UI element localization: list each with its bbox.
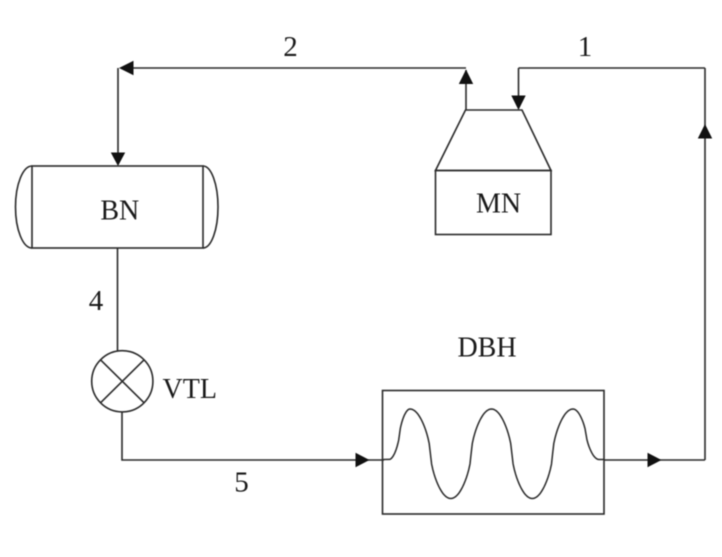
label BN: [100, 196, 139, 227]
wire stream 2: top horizontal line from MN riser to BN drop: [121, 67, 466, 69]
wire stream 1: top horizontal line from right riser to MN inlet drop: [519, 67, 706, 69]
wire: vertical drop from line 2 into BN tank: [117, 68, 119, 164]
svg-text:4: 4: [89, 285, 104, 317]
arrowhead left on stream 2: [119, 61, 134, 75]
wire: right-side riser from DBH outlet up to line 1: [704, 68, 706, 460]
arrowhead down into BN: [111, 153, 125, 167]
wire: vertical drop from line 1 into MN compressor: [518, 68, 520, 108]
arrowhead right on stream 5 at DBH inlet: [356, 453, 370, 467]
wire: riser from MN outlet up to line 2: [465, 70, 467, 110]
arrowhead right on DBH outlet line: [648, 453, 662, 467]
svg-text:VTL: VTL: [163, 374, 217, 405]
svg-text:BN: BN: [100, 196, 139, 227]
svg-text:1: 1: [578, 31, 593, 63]
valve VTL (circle with X): [92, 351, 153, 412]
label MN: [476, 189, 521, 220]
tank BN (horizontal vessel): [16, 166, 219, 248]
stream label 4: [89, 285, 104, 317]
svg-text:5: 5: [234, 467, 249, 499]
label DBH: [457, 333, 516, 364]
stream label 5: [234, 467, 249, 499]
arrowhead up on right riser: [698, 124, 712, 139]
stream label 2: [283, 31, 298, 63]
svg-text:MN: MN: [476, 189, 521, 220]
heat exchanger DBH coil wave: [384, 409, 605, 499]
stream label 1: [578, 31, 593, 63]
wire stream 5: VTL outlet down and right to DBH inlet: [122, 412, 384, 460]
wire: DBH outlet to right riser: [604, 459, 705, 461]
svg-text:DBH: DBH: [457, 333, 516, 364]
arrowhead down into MN: [511, 96, 525, 111]
label VTL: [163, 374, 217, 405]
wire stream 4: BN outlet down to VTL valve: [117, 248, 119, 351]
svg-text:2: 2: [283, 31, 298, 63]
compressor MN: [436, 110, 552, 235]
heat exchanger DBH box: [383, 391, 605, 515]
arrowhead up on MN riser: [459, 70, 473, 85]
